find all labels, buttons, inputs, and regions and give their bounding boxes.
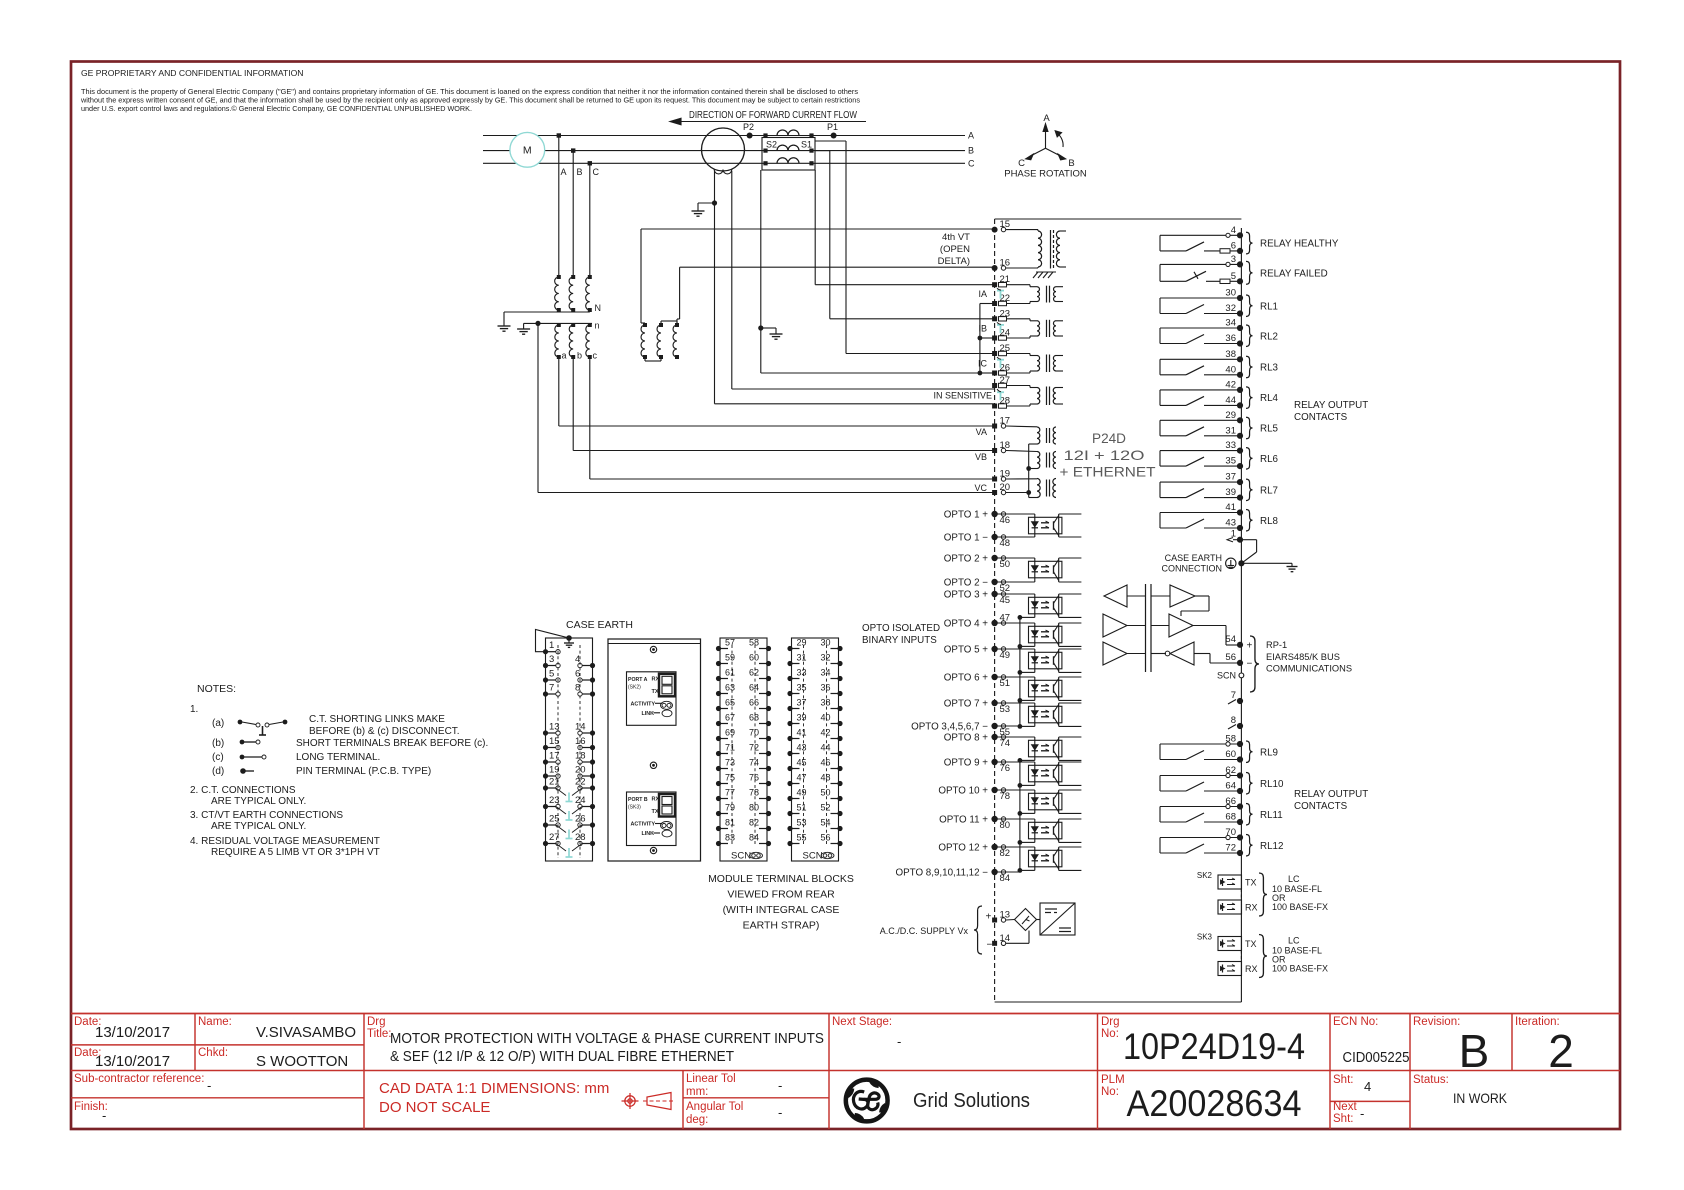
svg-text:53: 53: [1000, 704, 1011, 715]
svg-text:SHORT TERMINALS BREAK BEFORE (: SHORT TERMINALS BREAK BEFORE (c).: [296, 738, 488, 749]
svg-text:RL4: RL4: [1260, 393, 1279, 404]
svg-text:PORT B: PORT B: [628, 797, 648, 803]
svg-text:79: 79: [725, 803, 735, 813]
svg-text:5: 5: [1231, 271, 1236, 282]
svg-text:33: 33: [797, 668, 807, 678]
svg-text:30: 30: [821, 638, 831, 648]
svg-text:PIN TERMINAL (P.C.B. TYPE): PIN TERMINAL (P.C.B. TYPE): [296, 766, 431, 777]
svg-text:PLM: PLM: [1101, 1074, 1125, 1086]
svg-text:RL6: RL6: [1260, 454, 1279, 465]
svg-text:ARE TYPICAL ONLY.: ARE TYPICAL ONLY.: [211, 796, 306, 807]
svg-text:68: 68: [1225, 812, 1236, 823]
svg-text:MOTOR PROTECTION WITH VOLTAGE: MOTOR PROTECTION WITH VOLTAGE & PHASE CU…: [390, 1031, 824, 1047]
svg-text:20: 20: [1000, 482, 1011, 493]
svg-text:42: 42: [1225, 379, 1236, 390]
svg-text:mm:: mm:: [686, 1086, 708, 1098]
svg-text:OPTO 3 +: OPTO 3 +: [944, 590, 988, 601]
svg-text:NOTES:: NOTES:: [197, 683, 236, 695]
svg-text:ACTIVITY: ACTIVITY: [631, 822, 656, 828]
svg-text:12I + 12O: 12I + 12O: [1064, 447, 1145, 463]
svg-text:B: B: [1068, 158, 1074, 169]
svg-text:3: 3: [549, 654, 554, 665]
svg-text:(b): (b): [212, 738, 224, 749]
svg-text:56: 56: [821, 833, 831, 843]
svg-text:82: 82: [1000, 848, 1011, 859]
svg-text:58: 58: [749, 638, 759, 648]
svg-text:CONTACTS: CONTACTS: [1294, 801, 1348, 812]
svg-text:No:: No:: [1101, 1028, 1119, 1040]
svg-text:OPTO 10 +: OPTO 10 +: [938, 786, 988, 797]
svg-text:OPTO 3,4,5,6,7 −: OPTO 3,4,5,6,7 −: [911, 722, 988, 733]
svg-text:SCN: SCN: [731, 851, 751, 862]
svg-text:Revision:: Revision:: [1413, 1016, 1460, 1028]
svg-text:RL1: RL1: [1260, 301, 1278, 312]
svg-text:ACTIVITY: ACTIVITY: [631, 701, 656, 707]
svg-text:4. RESIDUAL VOLTAGE MEASURE: 4. RESIDUAL VOLTAGE MEASUREMENT: [190, 836, 380, 847]
svg-text:BEFORE (b) & (c) DISCONNECT.: BEFORE (b) & (c) DISCONNECT.: [309, 726, 460, 737]
svg-text:54: 54: [821, 818, 831, 828]
svg-text:-: -: [897, 1034, 901, 1049]
svg-text:Status:: Status:: [1413, 1074, 1449, 1086]
svg-text:n: n: [595, 321, 600, 331]
svg-text:21: 21: [549, 777, 560, 788]
svg-text:b: b: [577, 351, 582, 361]
svg-text:RELAY HEALTHY: RELAY HEALTHY: [1260, 239, 1339, 250]
svg-text:RX: RX: [1245, 903, 1258, 913]
svg-text:15: 15: [1000, 219, 1011, 230]
svg-text:4th VT: 4th VT: [942, 232, 970, 243]
svg-text:34: 34: [821, 668, 831, 678]
svg-text:OPTO 8 +: OPTO 8 +: [944, 733, 988, 744]
svg-text:2: 2: [1548, 1025, 1574, 1077]
svg-text:VB: VB: [975, 452, 987, 462]
svg-text:72: 72: [749, 743, 759, 753]
svg-text:6: 6: [1231, 240, 1236, 251]
svg-text:10P24D19-4: 10P24D19-4: [1123, 1026, 1305, 1067]
svg-text:Title:: Title:: [367, 1028, 392, 1040]
svg-text:31: 31: [1225, 425, 1236, 436]
svg-text:GE PROPRIETARY AND CONFIDENTIA: GE PROPRIETARY AND CONFIDENTIAL INFORMAT…: [81, 68, 304, 78]
svg-text:IA: IA: [978, 289, 987, 299]
svg-text:OPTO 6 +: OPTO 6 +: [944, 673, 988, 684]
svg-text:3. CT/VT EARTH CONNECTIONS: 3. CT/VT EARTH CONNECTIONS: [190, 810, 343, 821]
svg-text:62: 62: [749, 668, 759, 678]
svg-text:C.T. SHORTING LINKS MAKE: C.T. SHORTING LINKS MAKE: [309, 714, 445, 725]
svg-text:48: 48: [821, 773, 831, 783]
svg-text:76: 76: [1000, 763, 1011, 774]
svg-text:B: B: [968, 146, 974, 156]
svg-text:47: 47: [797, 773, 807, 783]
svg-text:37: 37: [1225, 472, 1236, 483]
svg-text:36: 36: [1225, 333, 1236, 344]
svg-text:S1: S1: [801, 140, 812, 150]
svg-text:CAD DATA 1:1 DIMENSIONS: mm: CAD DATA 1:1 DIMENSIONS: mm: [379, 1080, 609, 1097]
svg-text:45: 45: [1000, 595, 1011, 606]
svg-text:LINK: LINK: [642, 831, 655, 837]
svg-text:SCN: SCN: [803, 851, 823, 862]
svg-text:38: 38: [1225, 349, 1236, 360]
svg-text:7: 7: [549, 683, 554, 694]
svg-text:44: 44: [821, 743, 831, 753]
svg-text:35: 35: [797, 683, 807, 693]
svg-text:19: 19: [549, 765, 560, 776]
svg-text:82: 82: [749, 818, 759, 828]
svg-text:Drg: Drg: [1101, 1016, 1120, 1028]
svg-text:17: 17: [549, 751, 560, 762]
svg-text:-: -: [778, 1105, 782, 1120]
svg-text:30: 30: [1225, 288, 1236, 299]
svg-text:VIEWED FROM REAR: VIEWED FROM REAR: [727, 889, 835, 901]
svg-text:64: 64: [1225, 781, 1236, 792]
svg-text:27: 27: [549, 832, 560, 843]
svg-text:SCN: SCN: [1217, 671, 1236, 681]
svg-text:RL11: RL11: [1260, 810, 1283, 821]
svg-text:23: 23: [1000, 308, 1011, 319]
svg-text:73: 73: [725, 758, 735, 768]
svg-text:A20028634: A20028634: [1127, 1083, 1302, 1124]
svg-text:Angular Tol: Angular Tol: [686, 1101, 743, 1113]
svg-text:ECN No:: ECN No:: [1333, 1016, 1378, 1028]
svg-text:Chkd:: Chkd:: [198, 1047, 228, 1059]
svg-text:RL3: RL3: [1260, 363, 1279, 374]
svg-text:2. C.T. CONNECTIONS: 2. C.T. CONNECTIONS: [190, 785, 296, 796]
svg-text:45: 45: [797, 758, 807, 768]
svg-text:LINK: LINK: [642, 711, 655, 717]
svg-text:76: 76: [749, 773, 759, 783]
svg-text:6: 6: [575, 669, 580, 680]
svg-text:15: 15: [549, 736, 560, 747]
svg-text:−: −: [987, 940, 993, 951]
svg-text:68: 68: [749, 713, 759, 723]
svg-text:TX: TX: [1245, 939, 1257, 949]
svg-text:B: B: [577, 167, 583, 177]
svg-text:CASE EARTH: CASE EARTH: [566, 619, 633, 631]
svg-text:50: 50: [1000, 559, 1011, 570]
svg-text:TX: TX: [1245, 878, 1257, 888]
svg-text:46: 46: [821, 758, 831, 768]
svg-text:(a): (a): [212, 718, 224, 729]
svg-text:RL9: RL9: [1260, 747, 1278, 758]
svg-text:55: 55: [797, 833, 807, 843]
svg-text:ARE TYPICAL ONLY.: ARE TYPICAL ONLY.: [211, 821, 306, 832]
svg-text:51: 51: [1000, 678, 1011, 689]
svg-text:26: 26: [575, 814, 586, 825]
svg-text:49: 49: [797, 788, 807, 798]
svg-text:19: 19: [1000, 469, 1011, 480]
svg-text:67: 67: [725, 713, 735, 723]
svg-text:1.: 1.: [190, 704, 198, 715]
svg-text:43: 43: [1225, 518, 1236, 529]
svg-text:DIRECTION OF FORWARD CURREN: DIRECTION OF FORWARD CURRENT FLOW: [689, 110, 857, 121]
svg-text:(c): (c): [212, 752, 224, 763]
svg-text:+: +: [986, 912, 992, 923]
svg-text:14: 14: [575, 722, 586, 733]
svg-text:56: 56: [1225, 652, 1236, 663]
svg-text:33: 33: [1225, 440, 1236, 451]
svg-text:43: 43: [797, 743, 807, 753]
svg-text:DELTA): DELTA): [938, 256, 970, 267]
svg-text:60: 60: [1225, 749, 1236, 760]
svg-text:84: 84: [1000, 873, 1011, 884]
svg-text:−: −: [1247, 659, 1253, 670]
svg-text:53: 53: [797, 818, 807, 828]
svg-text:RELAY OUTPUT: RELAY OUTPUT: [1294, 400, 1368, 411]
svg-text:CONNECTION: CONNECTION: [1162, 564, 1223, 574]
svg-text:(WITH INTEGRAL CASE: (WITH INTEGRAL CASE: [723, 904, 840, 916]
svg-text:81: 81: [725, 818, 735, 828]
svg-text:40: 40: [821, 713, 831, 723]
svg-text:46: 46: [1000, 515, 1011, 526]
svg-text:A.C./D.C. SUPPLY Vx: A.C./D.C. SUPPLY Vx: [880, 926, 969, 936]
svg-text:Next: Next: [1333, 1101, 1357, 1113]
svg-text:-: -: [778, 1078, 782, 1093]
svg-text:OPTO ISOLATED: OPTO ISOLATED: [862, 623, 940, 634]
svg-text:-: -: [1360, 1106, 1364, 1121]
svg-text:P24D: P24D: [1092, 430, 1126, 446]
svg-text:47: 47: [1000, 613, 1011, 624]
svg-text:P1: P1: [827, 122, 838, 132]
svg-text:37: 37: [797, 698, 807, 708]
svg-text:VC: VC: [974, 483, 987, 493]
svg-text:5: 5: [549, 669, 554, 680]
svg-text:60: 60: [749, 653, 759, 663]
svg-text:S WOOTTON: S WOOTTON: [256, 1053, 348, 1070]
svg-text:C: C: [968, 158, 975, 168]
svg-text:M: M: [523, 145, 532, 157]
svg-text:16: 16: [575, 736, 586, 747]
svg-text:OPTO 2 +: OPTO 2 +: [944, 554, 988, 565]
svg-text:74: 74: [1000, 738, 1011, 749]
svg-text:OPTO 12 +: OPTO 12 +: [938, 843, 988, 854]
svg-text:LC: LC: [1288, 936, 1300, 946]
svg-text:75: 75: [725, 773, 735, 783]
svg-text:COMMUNICATIONS: COMMUNICATIONS: [1266, 664, 1352, 674]
svg-text:16: 16: [1000, 258, 1011, 269]
svg-text:OPTO 2 −: OPTO 2 −: [944, 578, 988, 589]
svg-text:84: 84: [749, 833, 759, 843]
svg-text:PHASE ROTATION: PHASE ROTATION: [1004, 169, 1087, 180]
svg-text:28: 28: [575, 832, 586, 843]
svg-text:IN SENSITIVE: IN SENSITIVE: [933, 391, 992, 401]
svg-text:83: 83: [725, 833, 735, 843]
svg-text:42: 42: [821, 728, 831, 738]
svg-text:RL5: RL5: [1260, 424, 1279, 435]
svg-text:LC: LC: [1288, 874, 1300, 884]
svg-text:Sub-contractor reference:: Sub-contractor reference:: [74, 1073, 204, 1085]
svg-text:P2: P2: [743, 122, 754, 132]
svg-text:No:: No:: [1101, 1086, 1119, 1098]
svg-text:EARTH STRAP): EARTH STRAP): [743, 920, 820, 932]
svg-text:EIARS485/K BUS: EIARS485/K BUS: [1266, 652, 1340, 662]
svg-text:3: 3: [1231, 254, 1236, 265]
svg-text:32: 32: [821, 653, 831, 663]
svg-text:REQUIRE A 5 LIMB VT OR 3: REQUIRE A 5 LIMB VT OR 3*1PH VT: [211, 847, 380, 858]
svg-text:OPTO 9 +: OPTO 9 +: [944, 758, 988, 769]
svg-text:Drg: Drg: [367, 1016, 386, 1028]
svg-text:deg:: deg:: [686, 1114, 708, 1126]
svg-text:35: 35: [1225, 456, 1236, 467]
svg-text:RELAY FAILED: RELAY FAILED: [1260, 268, 1328, 279]
svg-text:4: 4: [1364, 1079, 1371, 1094]
svg-text:A: A: [1043, 113, 1050, 124]
svg-text:78: 78: [749, 788, 759, 798]
svg-text:70: 70: [749, 728, 759, 738]
svg-text:RL12: RL12: [1260, 841, 1283, 852]
svg-text:(SK2): (SK2): [628, 684, 641, 690]
svg-text:14: 14: [1000, 933, 1011, 944]
svg-text:13: 13: [1000, 910, 1011, 921]
svg-text:+: +: [1247, 641, 1253, 652]
svg-text:32: 32: [1225, 303, 1236, 314]
svg-text:36: 36: [821, 683, 831, 693]
svg-text:100 BASE-FX: 100 BASE-FX: [1272, 902, 1328, 912]
svg-text:40: 40: [1225, 364, 1236, 375]
svg-text:OPTO 8,9,10,11,12 −: OPTO 8,9,10,11,12 −: [896, 868, 989, 879]
svg-text:A: A: [968, 131, 974, 141]
svg-text:Next Stage:: Next Stage:: [832, 1016, 892, 1028]
svg-text:44: 44: [1225, 395, 1236, 406]
svg-text:OPTO 1 −: OPTO 1 −: [944, 533, 988, 544]
svg-text:CASE EARTH: CASE EARTH: [1165, 553, 1222, 563]
svg-text:V.SIVASAMBO: V.SIVASAMBO: [256, 1024, 356, 1041]
svg-text:SK3: SK3: [1197, 933, 1213, 942]
svg-text:77: 77: [725, 788, 735, 798]
svg-text:48: 48: [1000, 538, 1011, 549]
svg-text:SK2: SK2: [1197, 871, 1213, 880]
svg-text:OPTO 7 +: OPTO 7 +: [944, 699, 988, 710]
svg-text:a: a: [562, 351, 567, 361]
svg-text:34: 34: [1225, 318, 1236, 329]
svg-text:B: B: [1459, 1025, 1490, 1077]
svg-text:BINARY INPUTS: BINARY INPUTS: [862, 635, 937, 646]
svg-text:38: 38: [821, 698, 831, 708]
svg-text:65: 65: [725, 698, 735, 708]
svg-text:(SK3): (SK3): [628, 805, 641, 811]
svg-text:RL8: RL8: [1260, 516, 1279, 527]
svg-text:Linear Tol: Linear Tol: [686, 1073, 736, 1085]
svg-text:27: 27: [1000, 375, 1011, 386]
svg-text:CID005225: CID005225: [1343, 1050, 1410, 1066]
svg-text:21: 21: [1000, 274, 1011, 285]
svg-text:61: 61: [725, 668, 735, 678]
svg-text:51: 51: [797, 803, 807, 813]
svg-text:(OPEN: (OPEN: [940, 244, 970, 255]
svg-text:RELAY OUTPUT: RELAY OUTPUT: [1294, 789, 1368, 800]
svg-text:OPTO 11 +: OPTO 11 +: [939, 815, 988, 826]
svg-text:Sht:: Sht:: [1333, 1113, 1353, 1125]
svg-text:80: 80: [749, 803, 759, 813]
svg-text:PORT A: PORT A: [628, 677, 648, 683]
svg-text:RL2: RL2: [1260, 331, 1278, 342]
svg-text:41: 41: [1225, 502, 1236, 513]
svg-text:24: 24: [575, 795, 586, 806]
svg-text:13/10/2017: 13/10/2017: [95, 1053, 170, 1070]
svg-text:RL10: RL10: [1260, 779, 1284, 790]
svg-text:50: 50: [821, 788, 831, 798]
svg-text:1: 1: [549, 640, 554, 651]
svg-text:18: 18: [575, 751, 586, 762]
svg-text:25: 25: [549, 814, 560, 825]
svg-text:57: 57: [725, 638, 735, 648]
svg-text:80: 80: [1000, 820, 1011, 831]
svg-text:VA: VA: [976, 427, 987, 437]
svg-text:-: -: [102, 1108, 106, 1123]
svg-text:RX: RX: [1245, 964, 1258, 974]
svg-text:22: 22: [575, 777, 586, 788]
svg-text:OPTO 1 +: OPTO 1 +: [944, 510, 988, 521]
svg-text:RP-1: RP-1: [1266, 640, 1287, 650]
svg-text:(d): (d): [212, 766, 224, 777]
svg-text:c: c: [593, 351, 598, 361]
svg-text:under U.S. export control laws: under U.S. export control laws and regul…: [81, 104, 472, 113]
svg-text:Sht:: Sht:: [1333, 1074, 1353, 1086]
svg-text:17: 17: [1000, 416, 1011, 427]
svg-text:-: -: [207, 1078, 211, 1093]
svg-text:CONTACTS: CONTACTS: [1294, 412, 1348, 423]
svg-text:23: 23: [549, 795, 560, 806]
svg-text:74: 74: [749, 758, 759, 768]
svg-text:IN WORK: IN WORK: [1453, 1090, 1508, 1106]
svg-text:C: C: [593, 167, 600, 177]
svg-text:71: 71: [725, 743, 735, 753]
svg-text:RL7: RL7: [1260, 485, 1278, 496]
svg-text:39: 39: [797, 713, 807, 723]
svg-text:78: 78: [1000, 791, 1011, 802]
svg-text:N: N: [595, 303, 602, 313]
svg-text:8: 8: [575, 683, 580, 694]
svg-text:4: 4: [575, 654, 580, 665]
svg-text:25: 25: [1000, 343, 1011, 354]
svg-text:+ ETHERNET: + ETHERNET: [1060, 464, 1156, 480]
svg-text:13/10/2017: 13/10/2017: [95, 1024, 170, 1041]
svg-text:64: 64: [749, 683, 759, 693]
svg-text:OPTO 4 +: OPTO 4 +: [944, 619, 988, 630]
svg-text:54: 54: [1225, 634, 1236, 645]
svg-text:49: 49: [1000, 650, 1011, 661]
svg-text:C: C: [1018, 158, 1025, 169]
svg-text:DO NOT SCALE: DO NOT SCALE: [379, 1099, 490, 1116]
svg-text:13: 13: [549, 722, 560, 733]
svg-text:39: 39: [1225, 487, 1236, 498]
svg-text:69: 69: [725, 728, 735, 738]
svg-text:18: 18: [1000, 440, 1011, 451]
svg-text:Name:: Name:: [198, 1016, 232, 1028]
svg-text:66: 66: [749, 698, 759, 708]
svg-text:OPTO 5 +: OPTO 5 +: [944, 645, 988, 656]
svg-text:LONG TERMINAL.: LONG TERMINAL.: [296, 752, 380, 763]
svg-text:A: A: [561, 167, 567, 177]
svg-text:31: 31: [797, 653, 807, 663]
svg-text:29: 29: [1225, 410, 1236, 421]
svg-text:100 BASE-FX: 100 BASE-FX: [1272, 964, 1328, 974]
svg-text:29: 29: [797, 638, 807, 648]
svg-text:4: 4: [1231, 225, 1236, 236]
svg-text:63: 63: [725, 683, 735, 693]
svg-text:Grid Solutions: Grid Solutions: [913, 1090, 1030, 1112]
svg-text:MODULE TERMINAL BLOCKS: MODULE TERMINAL BLOCKS: [708, 873, 854, 885]
svg-text:S2: S2: [766, 140, 777, 150]
svg-text:41: 41: [797, 728, 807, 738]
svg-text:20: 20: [575, 765, 586, 776]
svg-text:72: 72: [1225, 843, 1236, 854]
svg-text:52: 52: [821, 803, 831, 813]
svg-text:59: 59: [725, 653, 735, 663]
svg-text:& SEF (12 I/P & 12 O/P) WITH D: & SEF (12 I/P & 12 O/P) WITH DUAL FIBRE …: [390, 1049, 734, 1065]
